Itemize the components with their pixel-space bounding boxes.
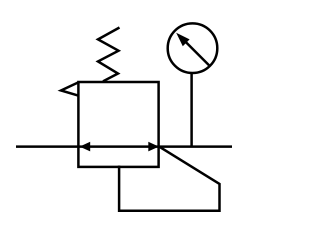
gauge needle bbox=[183, 39, 209, 65]
gauge G1 circle bbox=[168, 23, 218, 73]
gauge needle arrowhead bbox=[176, 33, 189, 46]
spring bbox=[98, 28, 120, 82]
wire pilot feedback line bbox=[119, 147, 219, 211]
flow arrowhead left bbox=[80, 142, 91, 152]
vent triangle bbox=[61, 83, 78, 96]
regulator body box bbox=[78, 82, 158, 167]
wire main flow line bbox=[16, 145, 232, 148]
flow arrowhead right bbox=[148, 142, 159, 152]
wire gauge stem bbox=[190, 73, 193, 147]
